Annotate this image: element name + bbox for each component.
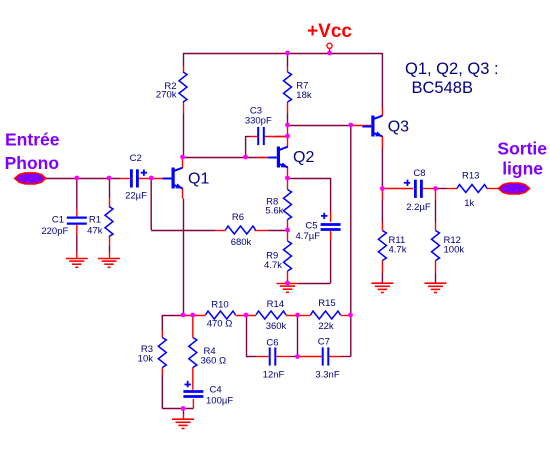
svg-text:R10: R10: [211, 300, 228, 311]
svg-text:220pF: 220pF: [41, 226, 68, 237]
svg-text:Entrée: Entrée: [5, 130, 60, 150]
svg-text:100µF: 100µF: [206, 395, 233, 406]
svg-text:Phono: Phono: [5, 153, 59, 173]
svg-text:12nF: 12nF: [263, 370, 285, 381]
svg-text:C1: C1: [52, 214, 64, 225]
svg-text:470 Ω: 470 Ω: [207, 319, 233, 330]
svg-text:2.2µF: 2.2µF: [406, 202, 431, 213]
svg-text:3.3nF: 3.3nF: [315, 370, 339, 381]
svg-text:R1: R1: [89, 214, 101, 225]
svg-text:+Vcc: +Vcc: [307, 21, 352, 42]
svg-text:Q1: Q1: [188, 171, 209, 188]
svg-text:R15: R15: [318, 298, 335, 309]
svg-text:C7: C7: [318, 337, 330, 348]
svg-text:Sortie: Sortie: [497, 138, 547, 158]
svg-text:270k: 270k: [156, 90, 177, 101]
svg-text:Q2: Q2: [293, 149, 314, 166]
svg-text:1k: 1k: [464, 198, 474, 209]
svg-text:330pF: 330pF: [245, 116, 272, 127]
svg-text:Q1, Q2, Q3 :: Q1, Q2, Q3 :: [405, 60, 499, 78]
svg-text:360k: 360k: [266, 321, 287, 332]
svg-text:4.7k: 4.7k: [389, 244, 407, 255]
svg-text:R14: R14: [267, 299, 284, 310]
svg-text:47k: 47k: [87, 226, 103, 237]
svg-text:4.7µF: 4.7µF: [296, 231, 321, 242]
svg-text:R6: R6: [232, 212, 244, 223]
svg-text:5.6k: 5.6k: [265, 205, 283, 216]
svg-text:100k: 100k: [444, 244, 465, 255]
svg-text:Q3: Q3: [388, 118, 409, 135]
svg-text:C2: C2: [130, 153, 142, 164]
svg-text:22k: 22k: [318, 321, 334, 332]
svg-text:C5: C5: [305, 221, 317, 232]
svg-text:BC548B: BC548B: [412, 79, 473, 97]
svg-text:C6: C6: [266, 337, 278, 348]
svg-text:C4: C4: [210, 384, 222, 395]
svg-text:C8: C8: [413, 168, 425, 179]
svg-text:10k: 10k: [138, 354, 154, 365]
svg-text:ligne: ligne: [502, 159, 543, 179]
svg-text:360 Ω: 360 Ω: [201, 356, 227, 367]
svg-text:18k: 18k: [296, 90, 312, 101]
svg-text:4.7k: 4.7k: [264, 260, 282, 271]
svg-text:680k: 680k: [231, 237, 252, 248]
svg-text:22µF: 22µF: [125, 191, 147, 202]
svg-text:R13: R13: [462, 170, 479, 181]
